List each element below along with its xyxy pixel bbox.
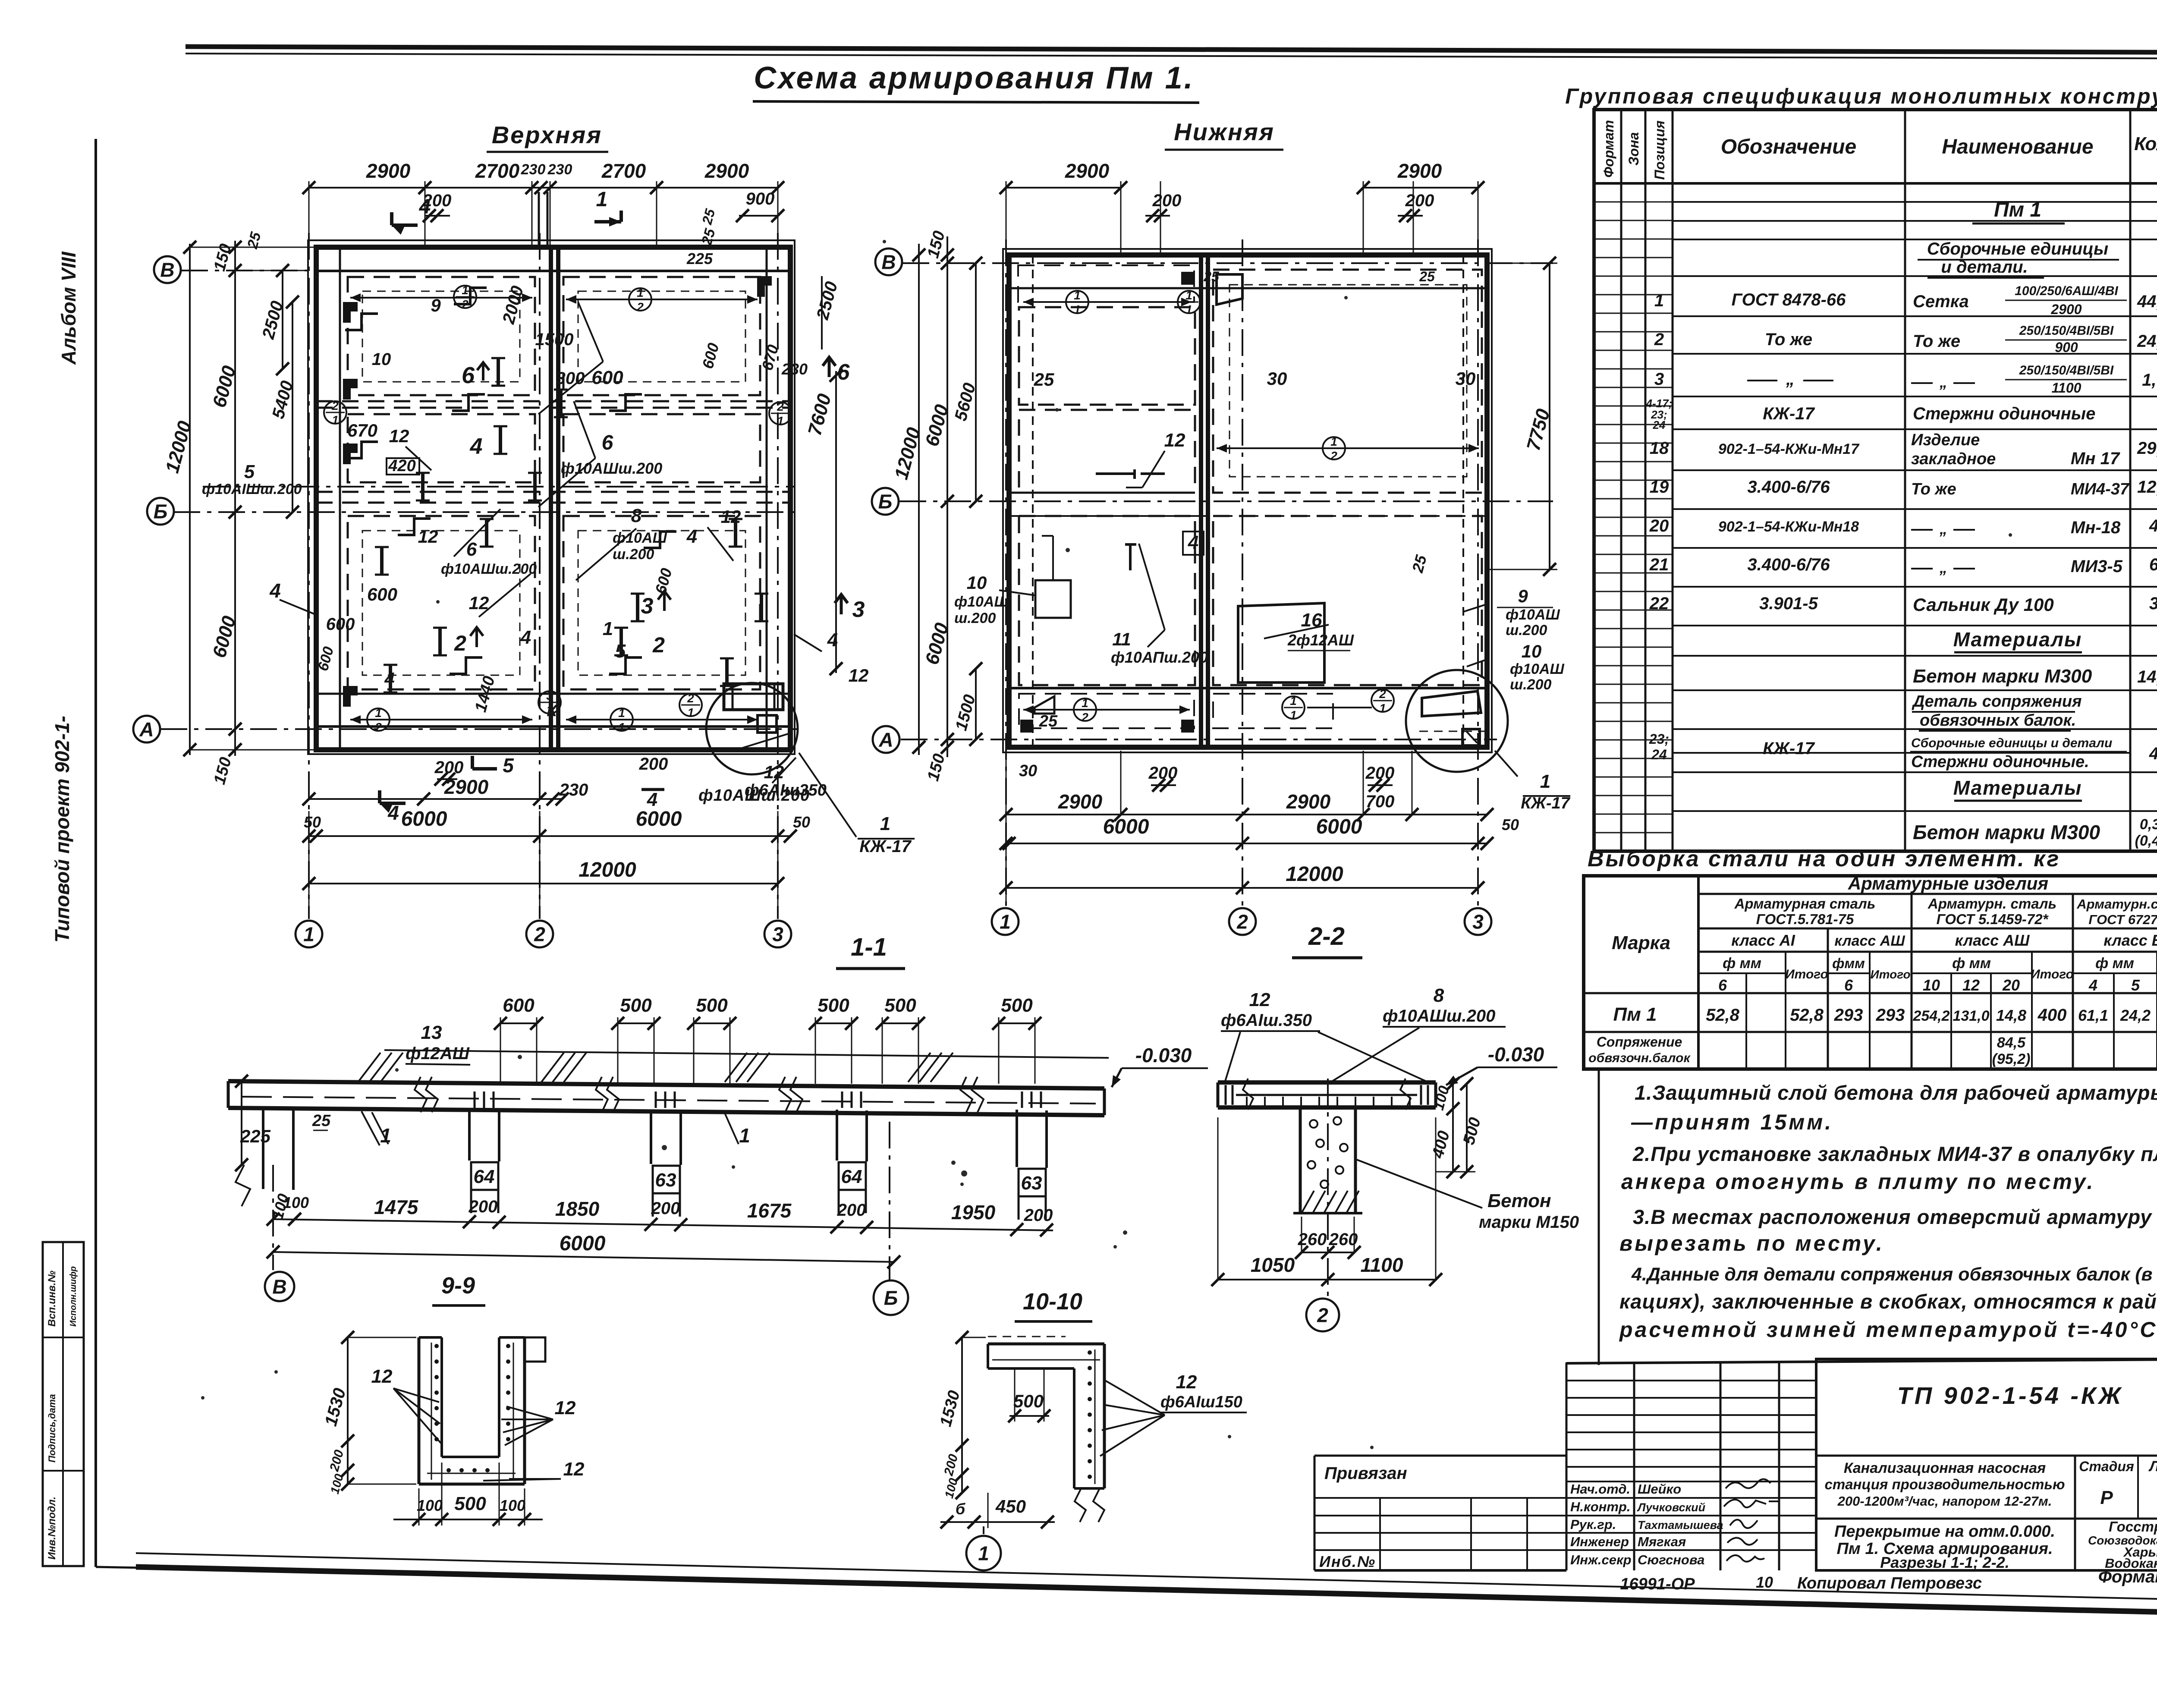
svg-text:Исполн.шифр: Исполн.шифр — [69, 1266, 78, 1327]
svg-text:9: 9 — [1518, 586, 1528, 606]
svg-text:МИ3-5: МИ3-5 — [2071, 557, 2123, 576]
svg-text:3: 3 — [1472, 911, 1484, 933]
svg-text:МИ4-37: МИ4-37 — [2071, 480, 2130, 498]
svg-text:Формат 22: Формат 22 — [2098, 1567, 2157, 1586]
plan2 top dimension chains — [1006, 187, 1121, 189]
svg-text:12: 12 — [563, 1459, 585, 1480]
svg-text:(0,48): (0,48) — [2135, 833, 2157, 849]
svg-text:Бетон марки М300: Бетон марки М300 — [1913, 821, 2100, 843]
svg-text:Б: Б — [154, 500, 168, 523]
svg-text:23;: 23; — [1649, 731, 1669, 747]
mesh mark 1/1 — [1178, 291, 1200, 313]
svg-text:2: 2 — [1236, 911, 1248, 933]
svg-text:1,6: 1,6 — [2142, 371, 2157, 390]
section 1-1 axis B circle — [272, 1165, 274, 1270]
svg-text:300: 300 — [556, 369, 585, 388]
svg-text:12000: 12000 — [1286, 863, 1343, 886]
spec row 3 — [1747, 380, 1777, 381]
svg-text:4: 4 — [520, 627, 531, 648]
plan2 detail circle KZh-17 — [1406, 670, 1508, 772]
svg-text:230: 230 — [521, 161, 546, 178]
svg-text:1500: 1500 — [535, 330, 574, 349]
svg-text:Пм 1: Пм 1 — [1613, 1004, 1657, 1025]
svg-text:Б: Б — [878, 491, 893, 513]
svg-text:Бетон марки М300: Бетон марки М300 — [1913, 666, 2092, 687]
left margin stamp boxes — [43, 1242, 84, 1566]
svg-text:Арматурная сталь: Арматурная сталь — [1734, 896, 1876, 912]
plan1 axis 5 dash-dot line — [203, 486, 794, 488]
axis Б circle — [872, 488, 899, 515]
svg-text:2700: 2700 — [601, 160, 646, 182]
svg-text:6000: 6000 — [1103, 815, 1149, 838]
section 10-10 rebar — [1094, 1349, 1096, 1484]
svg-text:200: 200 — [1152, 191, 1182, 210]
svg-text:1: 1 — [880, 813, 890, 834]
svg-text:5: 5 — [244, 461, 255, 482]
svg-text:6000: 6000 — [636, 808, 682, 830]
svg-text:12: 12 — [418, 526, 438, 547]
mesh mark 1/1 — [1282, 696, 1305, 719]
svg-text:902-1–54-КЖи-Мн18: 902-1–54-КЖи-Мн18 — [1718, 519, 1859, 535]
svg-text:16: 16 — [1301, 610, 1322, 631]
svg-text:обвязочн.балок: обвязочн.балок — [1588, 1051, 1691, 1065]
svg-text:1: 1 — [687, 706, 694, 719]
mesh mark 2/1 — [769, 402, 792, 425]
svg-text:ф10АШ: ф10АШ — [1510, 661, 1564, 677]
axis line А horizontal (plan2) — [901, 739, 1497, 740]
svg-text:ф мм: ф мм — [2095, 955, 2134, 972]
svg-text:20: 20 — [1649, 516, 1669, 535]
svg-text:600: 600 — [591, 367, 623, 388]
svg-text:30: 30 — [1456, 368, 1476, 389]
axis В circle — [265, 1272, 294, 1301]
svg-text:24: 24 — [1651, 747, 1667, 762]
svg-text:1: 1 — [1185, 289, 1192, 302]
svg-text:ф10АШш.200: ф10АШш.200 — [1383, 1007, 1495, 1025]
svg-text:1.Защитный слой бетона для: 1.Защитный слой бетона для рабочей армат… — [1635, 1081, 2157, 1104]
svg-text:ф10АШш.200: ф10АШш.200 — [441, 561, 537, 577]
svg-text:3.400-6/76: 3.400-6/76 — [1747, 478, 1830, 497]
svg-text:225: 225 — [686, 250, 713, 267]
svg-text:200: 200 — [639, 755, 668, 774]
svg-text:1475: 1475 — [374, 1196, 419, 1218]
notes separator line — [1598, 1069, 1600, 1365]
section 1-1 break marks — [415, 1077, 427, 1112]
section 1-1 bottom dimension chain — [273, 1219, 1053, 1230]
axis line Б horizontal (plan2) — [899, 500, 1553, 502]
axis 1 circle — [296, 921, 322, 947]
plan2 mesh 10 small rect — [1035, 580, 1071, 618]
steel table main columns — [1697, 876, 1700, 1069]
plan1 centre wall (axis 2) double line — [549, 247, 553, 750]
axis 2 circle — [1306, 1299, 1339, 1331]
plan1 wall-230 verticals above slab — [538, 192, 540, 247]
plan1 wall corner marks — [343, 302, 358, 323]
steel table frame — [1584, 876, 2157, 1069]
svg-text:Мягкая: Мягкая — [1638, 1534, 1686, 1549]
svg-text:1: 1 — [1654, 291, 1664, 310]
axis 2 circle — [1229, 908, 1256, 935]
svg-text:254,2: 254,2 — [1912, 1008, 1949, 1024]
svg-text:100: 100 — [500, 1497, 525, 1514]
svg-text:ф10АШш.200: ф10АШш.200 — [561, 459, 662, 477]
svg-text:9-9: 9-9 — [441, 1273, 475, 1299]
sheet frame: bottom border double line — [136, 1553, 2157, 1601]
plan2 mesh arrows bottom strip — [1023, 709, 1190, 711]
svg-text:Верхняя: Верхняя — [492, 121, 602, 148]
axis В circle — [154, 256, 181, 283]
svg-text:3: 3 — [2149, 594, 2157, 613]
section 1-1 support walls with mesh boxes — [468, 1110, 471, 1161]
svg-text:Канализационная насосная: Канализационная насосная — [1844, 1460, 2046, 1476]
svg-text:420: 420 — [388, 457, 415, 475]
svg-text:В: В — [881, 251, 896, 274]
svg-text:64: 64 — [841, 1166, 862, 1187]
svg-text:260: 260 — [1329, 1230, 1358, 1249]
svg-text:500: 500 — [620, 995, 652, 1016]
svg-text:250/150/4ВI/5ВI: 250/150/4ВI/5ВI — [2019, 363, 2114, 377]
svg-text:63: 63 — [655, 1170, 676, 1191]
svg-text:Материалы: Материалы — [1953, 628, 2082, 651]
svg-text:12: 12 — [1249, 989, 1270, 1010]
svg-text:61,1: 61,1 — [2078, 1007, 2108, 1024]
svg-text:ш.200: ш.200 — [954, 610, 996, 626]
svg-text:4: 4 — [1188, 532, 1198, 553]
svg-text:600: 600 — [503, 995, 535, 1016]
svg-text:44,0: 44,0 — [2137, 292, 2157, 311]
section 9-9 left dims — [347, 1337, 349, 1484]
svg-text:902-1–54-КЖи-Мн17: 902-1–54-КЖи-Мн17 — [1718, 441, 1860, 457]
svg-text:станция производительностью: станция производительностью — [1824, 1476, 2065, 1492]
svg-text:10: 10 — [1756, 1573, 1773, 1591]
svg-text:2700: 2700 — [475, 160, 520, 182]
plan1 detail circle KZh-17 — [706, 683, 798, 774]
section 10-10 slab and wall — [988, 1343, 1104, 1346]
svg-text:Материалы: Материалы — [1953, 777, 2082, 799]
svg-text:100: 100 — [283, 1194, 309, 1211]
detail axis circle 2 — [1327, 1079, 1329, 1297]
svg-text:4: 4 — [2149, 744, 2157, 763]
svg-text:3: 3 — [772, 923, 783, 946]
svg-text:Мн-18: Мн-18 — [2071, 518, 2121, 537]
svg-text:Нач.отд.: Нач.отд. — [1570, 1482, 1630, 1497]
svg-text:Наименование: Наименование — [1942, 135, 2093, 158]
svg-text:Всп.инв.№: Всп.инв.№ — [46, 1271, 58, 1327]
detail bottom dims 260/260 1050/1100 — [1302, 1252, 1354, 1253]
svg-text:2900: 2900 — [1058, 790, 1103, 813]
svg-text:Пм 1: Пм 1 — [1994, 198, 2041, 221]
svg-text:2900: 2900 — [1397, 160, 1442, 182]
svg-text:Бетон: Бетон — [1487, 1190, 1551, 1211]
svg-text:293: 293 — [1876, 1006, 1905, 1025]
section 1-1 top dimension pairs — [500, 1022, 537, 1024]
svg-text:Выборка стали на один эле: Выборка стали на один элемент. кг — [1588, 846, 2060, 871]
svg-text:„: „ — [1786, 370, 1795, 389]
plan1 12000 dimension line — [309, 883, 778, 884]
plan1 leader diagonals — [538, 362, 603, 414]
plan1 mesh sheet 4 dashed rect — [563, 414, 760, 482]
svg-text:К: К — [547, 702, 558, 720]
svg-text:500: 500 — [884, 995, 916, 1016]
svg-text:500: 500 — [454, 1493, 486, 1514]
plan1 bottom dimension chains — [309, 798, 562, 800]
svg-text:Сборочные единицы и детали: Сборочные единицы и детали — [1911, 736, 2112, 750]
plan1 rebar end symbols — [497, 358, 500, 386]
svg-text:класс АI: класс АI — [1731, 931, 1795, 949]
svg-text:1100: 1100 — [1361, 1254, 1403, 1276]
svg-text:52,8: 52,8 — [1790, 1006, 1824, 1025]
svg-text:ш.200: ш.200 — [613, 546, 654, 563]
svg-text:12: 12 — [721, 506, 741, 527]
plan2 mesh 16 solid rect — [1238, 603, 1324, 683]
axis line B horizontal — [181, 270, 798, 271]
svg-text:200: 200 — [651, 1199, 680, 1218]
svg-text:Нижняя: Нижняя — [1174, 118, 1275, 145]
svg-text:2: 2 — [1379, 687, 1386, 701]
plan2 slab main outline — [1009, 255, 1487, 747]
svg-text:400: 400 — [2038, 1006, 2067, 1025]
svg-text:30: 30 — [1019, 762, 1037, 780]
axis 1 circle — [966, 1536, 1001, 1570]
svg-text:1: 1 — [303, 923, 314, 946]
svg-text:В: В — [272, 1276, 286, 1298]
privyazan box — [1314, 1455, 1566, 1457]
plan2 mesh rect ML room — [1019, 410, 1195, 493]
svg-text:1-1: 1-1 — [851, 933, 887, 961]
svg-text:2900: 2900 — [2050, 302, 2082, 317]
svg-text:ГОСТ 5.1459-72*: ГОСТ 5.1459-72* — [1937, 911, 2049, 927]
svg-text:Сетка: Сетка — [1913, 292, 1969, 311]
svg-text:Тахтамышева: Тахтамышева — [1638, 1519, 1723, 1532]
section 1-1 6000 dimension — [273, 1252, 894, 1262]
section 9-9 bottom dims — [393, 1519, 543, 1520]
svg-text:2: 2 — [374, 720, 382, 734]
svg-text:1050: 1050 — [1251, 1254, 1295, 1276]
plan2 TL corner glyph — [1217, 274, 1242, 305]
svg-text:2: 2 — [1654, 330, 1664, 349]
svg-text:ф6АIш150: ф6АIш150 — [1160, 1393, 1242, 1411]
svg-text:200: 200 — [837, 1201, 866, 1220]
svg-text:4: 4 — [384, 669, 394, 689]
svg-text:1: 1 — [978, 1542, 989, 1565]
svg-text:1950: 1950 — [951, 1201, 996, 1224]
plan2 horizontal dashed wall lines — [1009, 492, 1195, 494]
svg-text:Шейко: Шейко — [1638, 1482, 1681, 1497]
section 9-9 channel walls — [418, 1337, 421, 1484]
section 1-1 slab band — [228, 1081, 1104, 1088]
svg-text:6000: 6000 — [560, 1232, 606, 1255]
svg-text:класс АШ: класс АШ — [1834, 933, 1905, 949]
svg-text:250/150/4ВI/5ВI: 250/150/4ВI/5ВI — [2019, 324, 2114, 338]
svg-text:кациях), заключенные в скобк: кациях), заключенные в скобках, относятс… — [1619, 1290, 2157, 1313]
plan1 mesh sheet 3 dashed rect — [348, 414, 535, 482]
svg-text:500: 500 — [1013, 1391, 1044, 1411]
svg-text:131,0: 131,0 — [1953, 1008, 1989, 1024]
plan2 bottom strips dashed — [1019, 694, 1194, 728]
svg-text:6: 6 — [2149, 555, 2157, 574]
plan2 mesh rect TR tall room — [1213, 270, 1482, 493]
plan2 axis 1 vertical — [1005, 239, 1007, 906]
svg-text:ф10АШ: ф10АШ — [954, 594, 1009, 610]
axis 2 vertical — [539, 233, 541, 919]
svg-text:—принят 15мм.: —принят 15мм. — [1631, 1110, 1833, 1134]
svg-text:КЖ-17: КЖ-17 — [859, 837, 912, 856]
svg-text:2: 2 — [687, 692, 694, 705]
plan1 step hooks — [454, 288, 487, 304]
svg-text:ТП 902-1-54 -КЖ: ТП 902-1-54 -КЖ — [1897, 1382, 2124, 1409]
svg-text:Стержни одиночные.: Стержни одиночные. — [1911, 753, 2089, 771]
plan1 mesh sheet 5 dashed rect — [348, 516, 535, 689]
svg-text:Привязан: Привязан — [1324, 1464, 1407, 1483]
plan2 centre wall (axis 2) double line — [1199, 255, 1203, 747]
plan2 axis 3 vertical — [1477, 239, 1479, 906]
svg-text:10-10: 10-10 — [1023, 1289, 1082, 1315]
svg-text:Групповая спецификация монол: Групповая спецификация монолитных констр… — [1565, 84, 2157, 108]
svg-text:2: 2 — [1330, 449, 1337, 462]
svg-text:2-2: 2-2 — [1308, 922, 1345, 950]
svg-text:1: 1 — [603, 618, 613, 639]
section 10-10 bottom dims — [940, 1521, 1055, 1523]
svg-text:фмм: фмм — [1832, 956, 1865, 971]
axis В circle — [875, 248, 902, 275]
spec table column lines — [1620, 110, 1622, 851]
svg-text:8: 8 — [631, 505, 642, 526]
svg-text:12000: 12000 — [579, 859, 636, 881]
svg-text:24,0: 24,0 — [2137, 332, 2157, 351]
svg-text:200: 200 — [1405, 191, 1434, 210]
svg-text:24: 24 — [1653, 418, 1666, 431]
svg-text:1: 1 — [1074, 303, 1081, 316]
svg-text:3: 3 — [546, 689, 553, 702]
plan2 left dimension chains — [946, 236, 948, 757]
svg-text:ш.200: ш.200 — [1506, 622, 1547, 639]
svg-text:Инб.№: Инб.№ — [1319, 1553, 1376, 1570]
svg-text:Арматурн. сталь: Арматурн. сталь — [1927, 896, 2056, 912]
plan1 bottom strip line — [316, 693, 790, 695]
plan1 mesh sheet 1 dashed rect — [348, 277, 535, 395]
svg-text:450: 450 — [995, 1496, 1026, 1516]
mesh mark 2/1 — [679, 694, 702, 716]
plan1 top dimension chain — [309, 187, 778, 189]
svg-text:12: 12 — [849, 665, 869, 686]
spec table thin row lines (left columns) — [1594, 201, 1673, 203]
svg-text:ф10АШ: ф10АШ — [1506, 607, 1560, 623]
plan2 axis 2 vertical — [1242, 239, 1243, 906]
plan2 leader lines — [1142, 451, 1165, 488]
svg-text:ГОСТ.5.781-75: ГОСТ.5.781-75 — [1756, 911, 1854, 927]
plan1 inner fine-dash rects — [362, 291, 520, 382]
axis Б circle — [874, 1280, 908, 1315]
axis 1 circle — [992, 908, 1019, 935]
plan1 section mark 4 (top) — [392, 223, 418, 227]
detail slab band — [1218, 1080, 1436, 1085]
section 1-1 bar 13 reference line — [384, 1050, 1109, 1058]
svg-text:1: 1 — [777, 414, 784, 428]
spec table header row — [1594, 182, 2157, 185]
svg-text:200: 200 — [434, 758, 464, 777]
svg-text:2: 2 — [777, 400, 784, 413]
svg-text:Итого: Итого — [1785, 967, 1828, 981]
svg-text:12: 12 — [371, 1366, 393, 1387]
svg-text:25: 25 — [1203, 269, 1220, 284]
svg-text:1: 1 — [1540, 771, 1550, 792]
mesh mark 1/2 — [454, 286, 476, 308]
svg-text:10: 10 — [1522, 641, 1542, 661]
svg-text:Сопряжение: Сопряжение — [1597, 1034, 1682, 1050]
mesh mark 2/1 — [1371, 689, 1394, 712]
svg-text:Н.контр.: Н.контр. — [1570, 1499, 1631, 1514]
svg-text:ф6АIш.350: ф6АIш.350 — [1221, 1011, 1312, 1030]
svg-text:4: 4 — [647, 789, 657, 810]
svg-text:А: А — [139, 718, 154, 741]
svg-text:3.901-5: 3.901-5 — [1759, 594, 1818, 613]
svg-text:14,9: 14,9 — [2137, 667, 2157, 686]
svg-text:1: 1 — [739, 1124, 750, 1147]
svg-text:1: 1 — [462, 283, 469, 297]
svg-text:225: 225 — [240, 1126, 271, 1146]
mesh mark 1/2 — [629, 288, 651, 311]
svg-text:500: 500 — [1001, 995, 1033, 1016]
svg-text:16991-ОР: 16991-ОР — [1620, 1575, 1695, 1593]
mesh mark 2/1 — [324, 401, 346, 424]
plan2 mesh rect BL room — [1019, 516, 1195, 685]
svg-text:700: 700 — [1366, 792, 1395, 811]
svg-text:100: 100 — [417, 1497, 443, 1514]
svg-text:1: 1 — [1074, 289, 1081, 302]
plan2 stair glyph mid — [1096, 469, 1165, 479]
svg-text:Зона: Зона — [1626, 132, 1641, 165]
svg-text:Обозначение: Обозначение — [1721, 135, 1856, 158]
svg-text:и детали.: и детали. — [1941, 258, 2028, 277]
svg-text:12: 12 — [1176, 1371, 1197, 1393]
svg-text:Копировал Петровезс: Копировал Петровезс — [1797, 1574, 1982, 1592]
plan2 right dimension 7750 — [1549, 263, 1550, 569]
plan2 black corner marks — [1181, 272, 1194, 285]
svg-text:Кол.: Кол. — [2134, 133, 2157, 154]
plan1 slab outer contour — [308, 240, 795, 754]
svg-text:0,36: 0,36 — [2140, 816, 2157, 833]
plan1 mesh arrows bottom strip — [350, 719, 532, 720]
plan2 mesh rect top-left strip — [1018, 265, 1194, 302]
mesh mark 3/1 — [538, 691, 561, 714]
section 9-9 rebar lines and studs — [431, 1343, 432, 1480]
steel header: GOST groups — [1911, 894, 1913, 1069]
svg-text:1: 1 — [618, 706, 625, 720]
svg-text:50: 50 — [1502, 816, 1519, 834]
svg-text:Формат: Формат — [1601, 120, 1616, 178]
svg-text:1: 1 — [1000, 911, 1011, 933]
mesh mark 1/1 — [1066, 291, 1088, 313]
svg-text:2900: 2900 — [1065, 160, 1110, 182]
svg-text:1: 1 — [637, 286, 644, 299]
plan1 section mark 4 (bottom) — [380, 802, 406, 805]
svg-text:2900: 2900 — [704, 160, 749, 182]
spec table content row lines — [1673, 201, 2157, 203]
svg-text:Сюгснова: Сюгснова — [1638, 1552, 1704, 1567]
svg-text:12: 12 — [1164, 430, 1185, 451]
svg-text:3: 3 — [641, 594, 654, 619]
plan1 left dimension chains — [234, 241, 236, 756]
svg-text:ф6АIш350: ф6АIш350 — [745, 781, 827, 799]
svg-text:900: 900 — [2055, 340, 2078, 355]
svg-text:Итого: Итого — [2031, 967, 2074, 981]
svg-text:600: 600 — [326, 615, 355, 634]
section 1-1 axis Б circle — [889, 1122, 890, 1280]
svg-text:2: 2 — [636, 300, 644, 314]
sheet frame: left margin line — [94, 139, 97, 1567]
svg-text:12: 12 — [555, 1397, 576, 1419]
plan1 mesh arrows top strip — [350, 297, 532, 299]
